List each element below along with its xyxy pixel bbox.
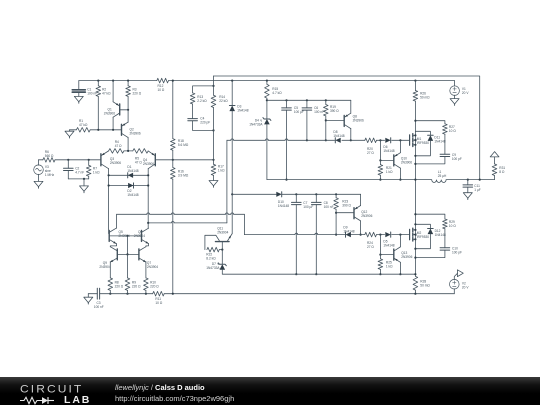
svg-text:10 Ω: 10 Ω (158, 88, 165, 92)
svg-text:50 mΩ: 50 mΩ (420, 95, 430, 99)
svg-text:10 Ω: 10 Ω (449, 129, 456, 133)
wire D10 bus (232, 193, 360, 195)
wire lower gate bus (244, 233, 409, 236)
transistor Q3 (101, 151, 121, 169)
resistor R19 (324, 100, 340, 141)
wire second stage line (147, 140, 227, 224)
resistor R23 (334, 194, 352, 235)
svg-text:2N3906: 2N3906 (130, 132, 141, 136)
svg-text:1 kΩ: 1 kΩ (386, 264, 393, 268)
resistor R25 (378, 235, 393, 276)
zener diode D7 (206, 250, 415, 275)
transistor Q13 (379, 235, 412, 276)
svg-text:2N3906: 2N3906 (401, 160, 412, 164)
svg-text:220 Ω: 220 Ω (150, 284, 159, 288)
diode D1 (108, 165, 150, 178)
wire input (39, 159, 101, 161)
junction dot lower mid rail (414, 273, 416, 275)
capacitor C4 (188, 116, 210, 130)
svg-text:2.2 kΩ: 2.2 kΩ (197, 99, 207, 103)
diode D2 (108, 183, 150, 197)
transistor Q10 (379, 140, 412, 180)
svg-text:2N3906: 2N3906 (110, 161, 121, 165)
mosfet M2 (410, 228, 430, 241)
svg-text:2N3904: 2N3904 (99, 265, 110, 269)
svg-text:IRF9530: IRF9530 (417, 141, 429, 145)
junction dots on supply rail (97, 80, 416, 82)
ground left of R1 (65, 130, 74, 138)
svg-text:1 MHz: 1 MHz (45, 173, 55, 177)
svg-text:1N4733A: 1N4733A (249, 123, 263, 127)
svg-text:100 nF: 100 nF (324, 205, 334, 209)
wire bias bus (267, 99, 351, 101)
resistor R12 (157, 78, 169, 92)
svg-text:560 Ω: 560 Ω (45, 154, 54, 158)
svg-text:1N4148: 1N4148 (278, 204, 289, 208)
svg-text:20 V: 20 V (462, 91, 469, 95)
svg-text:390 Ω: 390 Ω (330, 109, 339, 113)
svg-text:1N4148: 1N4148 (237, 109, 248, 113)
capacitor C3 (88, 288, 103, 309)
wire C2/R7 bottom (68, 178, 88, 180)
svg-text:10 Ω: 10 Ω (449, 224, 456, 228)
svg-text:1N4733A: 1N4733A (206, 266, 220, 270)
diode D11 (414, 131, 445, 157)
wire Q4 collector column (147, 169, 149, 223)
svg-text:2N3904: 2N3904 (217, 231, 228, 235)
diode D8 (333, 130, 344, 143)
wire main supply rail (79, 80, 455, 82)
svg-text:1N4148: 1N4148 (343, 229, 354, 233)
zener diode D4 (249, 118, 271, 180)
svg-text:1 kΩ: 1 kΩ (93, 171, 100, 175)
diode D5 (383, 232, 394, 247)
junction dot Q1 base / R3 (127, 109, 129, 111)
svg-text:220 Ω: 220 Ω (133, 91, 142, 95)
diode D9 (343, 225, 354, 237)
wire Q11 feedback loop (205, 235, 216, 249)
voltage source V3 (34, 160, 55, 182)
svg-text:1N4148: 1N4148 (383, 243, 394, 247)
resistor R3 (126, 81, 142, 110)
inductor L1 (432, 170, 447, 183)
svg-text:1N4148: 1N4148 (127, 193, 138, 197)
capacitor C9 (440, 153, 462, 161)
svg-text:47 kΩ: 47 kΩ (102, 91, 111, 95)
resistor R22 (206, 247, 223, 260)
svg-text:8.2 kΩ: 8.2 kΩ (206, 256, 216, 260)
resistor R15 (265, 81, 283, 119)
svg-text:47 Ω: 47 Ω (115, 144, 122, 148)
ground below C3 wire (84, 294, 93, 304)
svg-text:1N4148: 1N4148 (127, 169, 138, 173)
svg-text:220 Ω: 220 Ω (132, 284, 141, 288)
svg-text:20 V: 20 V (462, 285, 469, 289)
resistor R28 (413, 276, 430, 293)
wire Q4 base line (156, 159, 215, 161)
transistor Q4 (143, 151, 155, 169)
resistor R14 (211, 76, 228, 160)
wire M1 snubber box (414, 120, 445, 165)
capacitor C11 (463, 180, 481, 193)
svg-text:100 µF: 100 µF (303, 205, 313, 209)
resistor R11 (153, 291, 165, 305)
resistor R9 (125, 254, 141, 293)
node flag above R31 (490, 152, 499, 157)
ground below C2/R7 (80, 179, 89, 193)
wire Q5/Q6 base tie (110, 235, 142, 255)
svg-text:50 mΩ: 50 mΩ (420, 283, 430, 287)
wire comp bracket (193, 85, 215, 132)
svg-text:3.9 MΩ: 3.9 MΩ (178, 173, 189, 177)
svg-text:22 kΩ: 22 kΩ (219, 99, 228, 103)
ground below R17 (209, 181, 218, 188)
svg-text:100 pF: 100 pF (452, 157, 462, 161)
resistor R4 (109, 140, 124, 153)
transistor Q2 (122, 110, 141, 151)
resistor R10 (144, 278, 160, 294)
wire Q9/Q7 base tie (117, 253, 139, 255)
resistor R1 (76, 119, 90, 132)
wire Q3 collector column (108, 169, 110, 234)
svg-text:4.7 nF: 4.7 nF (75, 171, 84, 175)
resistor R21 (378, 140, 393, 180)
transistor Q9 (99, 247, 117, 269)
svg-text:100 nF: 100 nF (314, 110, 324, 114)
svg-text:4.7 kΩ: 4.7 kΩ (272, 91, 282, 95)
svg-text:220 Ω: 220 Ω (115, 284, 124, 288)
resistor R17 (211, 160, 225, 181)
svg-text:5.6 MΩ: 5.6 MΩ (178, 143, 189, 147)
wire Q7 emitter lead (145, 262, 147, 278)
resistor R8 (108, 278, 124, 294)
svg-text:100 nF: 100 nF (94, 305, 104, 309)
svg-text:1N4148: 1N4148 (333, 134, 344, 138)
wire M1 column (414, 81, 416, 215)
svg-text:2N3906: 2N3906 (143, 162, 154, 166)
svg-text:2N3906: 2N3906 (401, 255, 412, 259)
diode D10 (276, 192, 289, 208)
resistor R26 (413, 91, 430, 102)
svg-text:2N3906: 2N3906 (361, 214, 372, 218)
capacitor C5 (282, 100, 304, 180)
capacitor C10 (440, 246, 462, 254)
capacitor C7 (292, 194, 314, 275)
capacitor C6 (302, 100, 324, 141)
transistor Q5 (109, 214, 130, 247)
wire M2 column (414, 214, 416, 276)
resistor R20 (365, 138, 377, 155)
diode D12 (414, 223, 446, 250)
svg-text:1 kΩ: 1 kΩ (386, 170, 393, 174)
voltage source V2 (450, 279, 470, 293)
CircuitLab logo (20, 384, 100, 406)
svg-text:2N3904: 2N3904 (147, 265, 158, 269)
resistor R7 (86, 160, 100, 179)
wire M2 snubber box (414, 213, 445, 259)
capacitor C2 (64, 160, 85, 179)
resistor R29 (443, 219, 457, 248)
wire R1 line (70, 129, 122, 131)
wire upper gate bus (227, 139, 409, 141)
svg-text:390 Ω: 390 Ω (342, 203, 351, 207)
node flag above V2 (454, 270, 463, 280)
ground below V1 (450, 99, 459, 106)
svg-text:220 pF: 220 pF (200, 120, 210, 124)
resistor R6 (43, 150, 55, 162)
wire Q9 emitter lead (109, 262, 111, 278)
wire R4/R5 mid (124, 150, 133, 152)
wire top rail to right edge (214, 76, 480, 180)
ground below C1 (74, 96, 83, 103)
mosfet M1 (410, 134, 430, 147)
capacitor C8 (312, 194, 334, 275)
svg-text:2N3906: 2N3906 (104, 112, 115, 116)
voltage source V1 (450, 81, 470, 99)
svg-text:1N4148: 1N4148 (435, 233, 446, 237)
wire first stage line (117, 213, 245, 235)
svg-text:1 µF: 1 µF (474, 188, 480, 192)
wire output bus (267, 179, 495, 181)
transistor Q6 (134, 223, 149, 247)
junction dots on R1 line (97, 129, 114, 131)
svg-text:8 Ω: 8 Ω (499, 170, 505, 174)
footer text (115, 383, 234, 403)
svg-text:1 kΩ: 1 kΩ (218, 169, 225, 173)
svg-text:27 Ω: 27 Ω (367, 151, 374, 155)
wire bottom rail (100, 293, 455, 295)
svg-text:1N4148: 1N4148 (434, 139, 445, 143)
svg-text:27 Ω: 27 Ω (367, 245, 374, 249)
svg-text:25 µH: 25 µH (438, 174, 447, 178)
svg-text:47 kΩ: 47 kΩ (79, 123, 88, 127)
diode D6 (383, 138, 394, 153)
svg-text:10 Ω: 10 Ω (155, 301, 162, 305)
resistor R18 (171, 80, 189, 168)
transistor Q8 (326, 100, 364, 141)
resistor R24 (365, 232, 377, 249)
transistor Q11 (216, 227, 233, 250)
svg-text:47 Ω: 47 Ω (135, 160, 142, 164)
transistor Q1 (104, 81, 128, 130)
resistor R5 (133, 149, 148, 165)
ground below C11 (463, 193, 472, 200)
ground below V3 (34, 181, 43, 188)
capacitor C1 (72, 81, 97, 97)
svg-text:2N3906: 2N3906 (353, 118, 364, 122)
junction dots input node (67, 159, 90, 161)
diode D3 (229, 81, 248, 234)
svg-text:100 pF: 100 pF (452, 250, 462, 254)
transistor Q12 (336, 194, 372, 235)
resistor R16 (171, 168, 189, 294)
resistor R2 (96, 81, 111, 130)
svg-text:1N4148: 1N4148 (383, 149, 394, 153)
resistor R13 (190, 93, 207, 119)
resistor R31 (492, 157, 505, 179)
transistor Q7 (139, 247, 158, 269)
resistor R27 (443, 124, 457, 155)
svg-text:IRF9530: IRF9530 (417, 235, 429, 239)
